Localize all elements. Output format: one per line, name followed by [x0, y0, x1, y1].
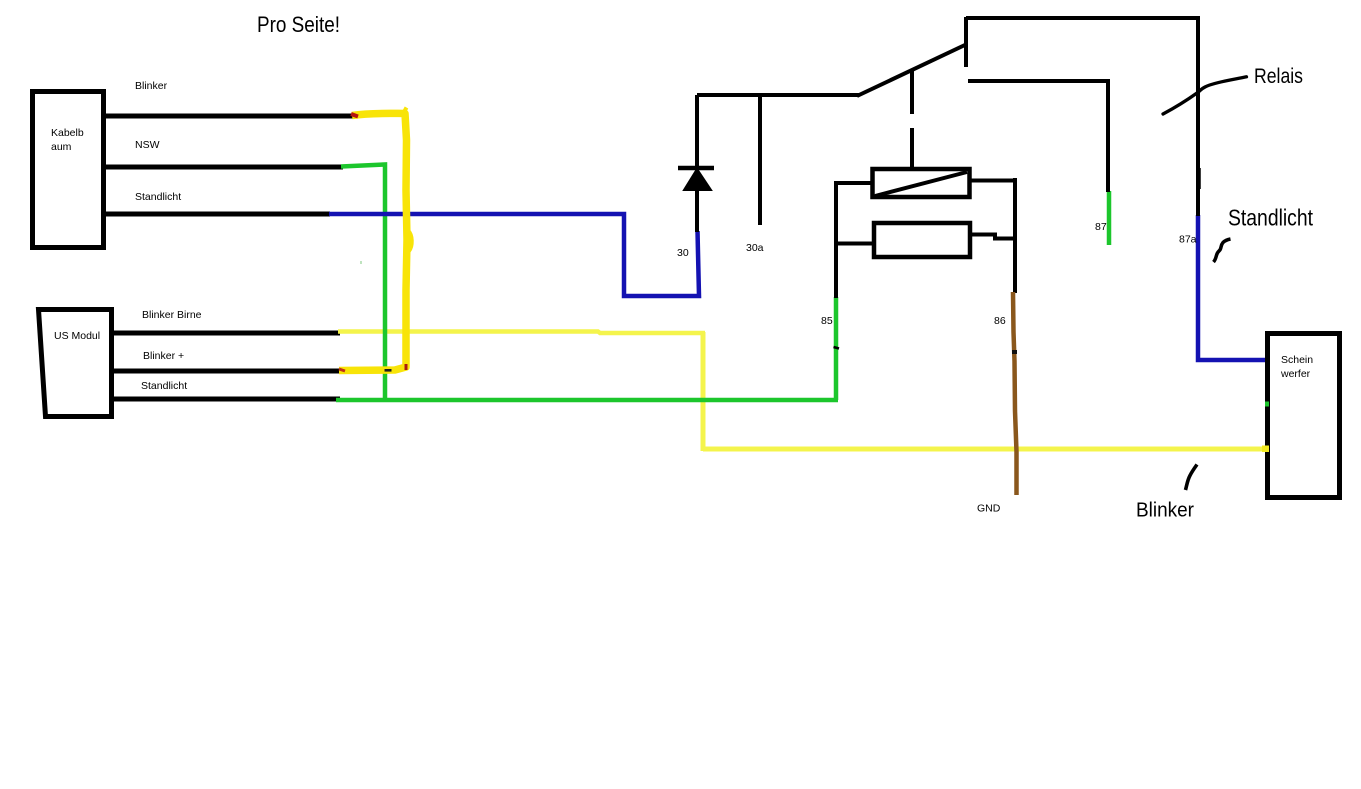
- svg-text:NSW: NSW: [135, 139, 160, 151]
- wire yellow Blinker Birne horizontal: [338, 332, 705, 334]
- joint mark on 87a wire: [1198, 168, 1201, 189]
- svg-text:Blinker: Blinker: [1136, 500, 1194, 522]
- wire blue 87a to Scheinwerfer: [1198, 215, 1266, 360]
- black dash under yellow hook: [385, 369, 392, 372]
- svg-text:87: 87: [1095, 221, 1107, 233]
- wire to pin 87: [968, 81, 1108, 192]
- black tick on brown 86 wire: [1012, 350, 1017, 354]
- svg-text:GND: GND: [977, 503, 1001, 515]
- wire Blinker plus black: [111, 369, 340, 374]
- wire coil right top lead: [969, 179, 1015, 183]
- relay switch contact vertical: [964, 17, 968, 67]
- wire thick yellow Blinker jumper: [339, 113, 407, 370]
- relay coil diagonal: [875, 172, 967, 196]
- svg-text:US Modul: US Modul: [54, 330, 100, 342]
- diode D1 lead: [695, 95, 699, 232]
- wire yellow vertical to lamp: [701, 332, 706, 451]
- svg-text:85: 85: [821, 315, 833, 327]
- wire green NSW to Standlicht bus: [341, 165, 385, 402]
- wire brown GND: [1013, 292, 1017, 495]
- red mark at Blinker plus joint: [339, 369, 345, 371]
- wire NSW black: [104, 165, 343, 170]
- pointer squiggle to Relais: [1163, 77, 1247, 114]
- wire Standlicht US black: [111, 397, 340, 402]
- red mark at Blinker joint: [351, 114, 358, 117]
- wire coil left bottom lead: [834, 242, 874, 246]
- pointer squiggle to Standlicht: [1214, 239, 1231, 262]
- svg-text:30a: 30a: [746, 242, 764, 254]
- svg-text:werfer: werfer: [1280, 368, 1311, 380]
- thick yellow corner tick: [404, 108, 407, 114]
- wire top to pin 87a: [966, 18, 1198, 216]
- wire green relay pin 85: [834, 297, 839, 400]
- wire Blinker Birne black: [111, 331, 340, 336]
- wire 30a vertical: [758, 95, 762, 225]
- wire green Standlicht horizontal: [336, 398, 838, 403]
- box US Modul: [39, 310, 112, 417]
- relay coil upper box: [873, 169, 970, 197]
- red speck on yellow vertical: [405, 364, 408, 370]
- thick yellow bump: [409, 231, 412, 251]
- diode D1 cathode bar: [678, 166, 714, 171]
- svg-text:Standlicht: Standlicht: [141, 380, 187, 392]
- svg-text:Pro Seite!: Pro Seite!: [257, 12, 340, 37]
- svg-text:Standlicht: Standlicht: [135, 191, 181, 203]
- wire yellow horizontal to Scheinwerfer: [703, 447, 1269, 452]
- relay switch armature diagonal: [857, 44, 967, 96]
- wire node 30 top horizontal: [697, 93, 859, 97]
- svg-text:Schein: Schein: [1281, 354, 1313, 366]
- relay armature link dash 2: [910, 128, 914, 170]
- svg-text:Standlicht: Standlicht: [1228, 205, 1314, 231]
- wire coil left top lead: [834, 181, 872, 185]
- box Schein werfer: [1268, 334, 1340, 498]
- svg-text:Kabelb: Kabelb: [51, 127, 84, 139]
- svg-text:87a: 87a: [1179, 234, 1197, 246]
- svg-text:aum: aum: [51, 141, 72, 153]
- wire coil right bottom lead: [969, 235, 1015, 239]
- faint speck: [360, 261, 362, 264]
- relay coil lower box: [874, 223, 970, 257]
- svg-text:86: 86: [994, 315, 1006, 327]
- wire green relay pin 87 stub: [1107, 191, 1112, 245]
- relay armature link dash 1: [910, 71, 914, 114]
- box Kabelbaum: [33, 92, 104, 248]
- green mark on Scheinwerfer edge: [1265, 402, 1269, 407]
- wire blue Standlicht to diode: [329, 214, 699, 296]
- wire pin 85 black vertical: [834, 181, 838, 298]
- wire Blinker black: [104, 114, 353, 119]
- svg-text:30: 30: [677, 247, 689, 259]
- wire Standlicht black: [104, 212, 330, 217]
- svg-text:Blinker +: Blinker +: [143, 350, 184, 362]
- diode D1 triangle: [684, 169, 711, 190]
- wire pin 86 black vertical: [1013, 178, 1017, 293]
- yellow tip at Scheinwerfer: [1262, 446, 1269, 453]
- svg-text:Blinker: Blinker: [135, 80, 168, 92]
- svg-text:Relais: Relais: [1254, 64, 1303, 88]
- svg-text:Blinker Birne: Blinker Birne: [142, 309, 202, 321]
- pointer squiggle to Blinker: [1186, 465, 1198, 491]
- black tick on green 85 wire: [834, 347, 840, 349]
